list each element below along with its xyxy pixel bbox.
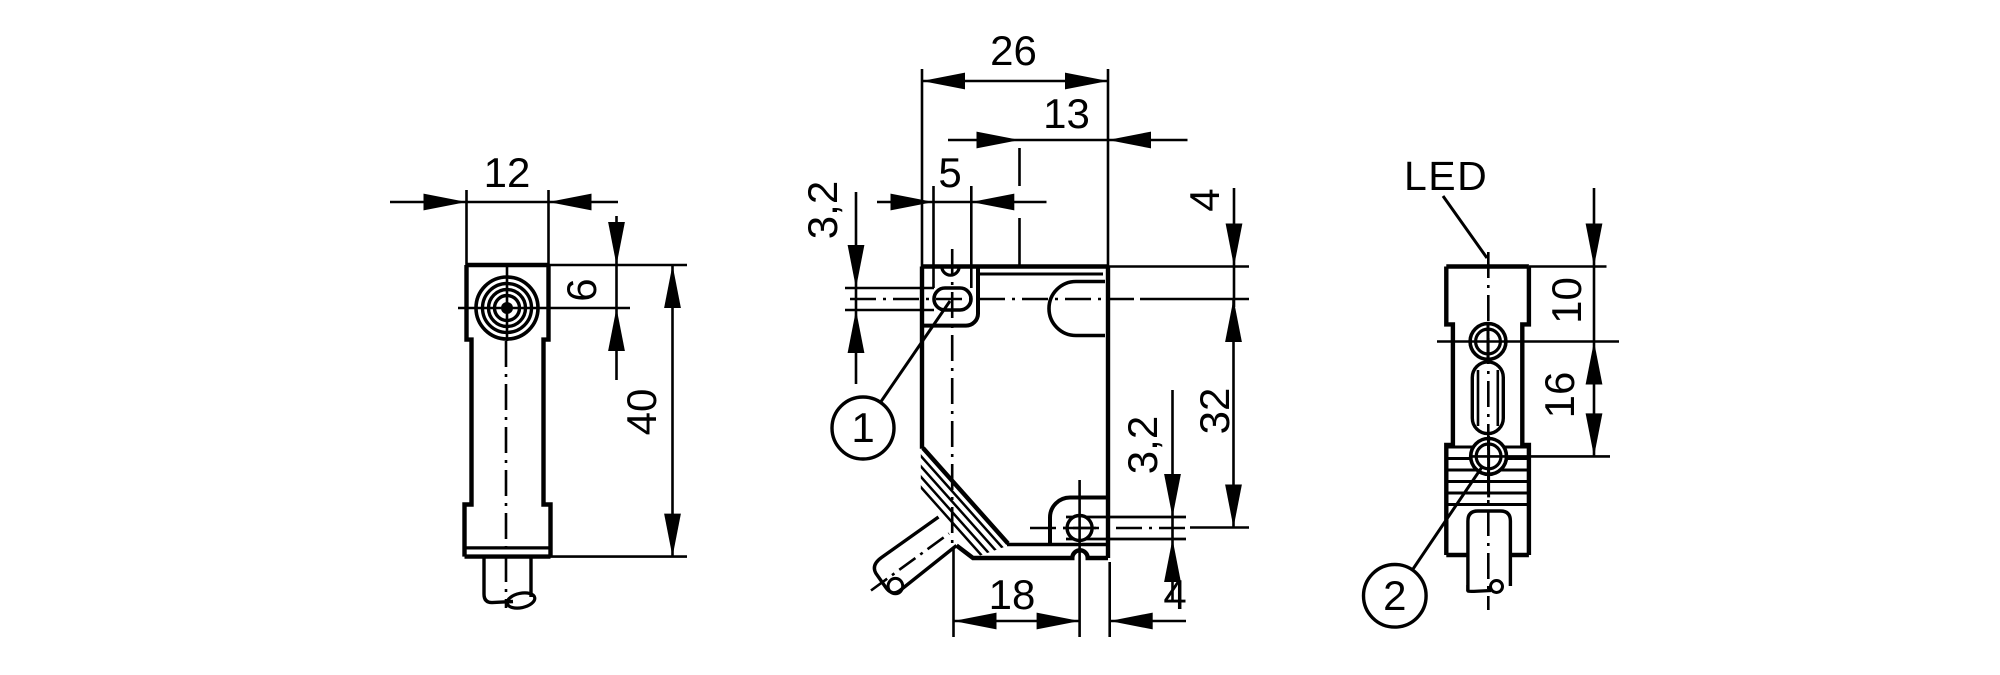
svg-text:6: 6	[558, 278, 605, 301]
svg-text:LED: LED	[1404, 153, 1488, 199]
svg-text:26: 26	[990, 27, 1037, 74]
svg-text:3,2: 3,2	[1119, 416, 1166, 474]
svg-text:4: 4	[1163, 571, 1186, 618]
svg-text:16: 16	[1536, 372, 1583, 419]
svg-text:32: 32	[1191, 388, 1238, 435]
svg-text:10: 10	[1543, 277, 1590, 324]
svg-text:40: 40	[618, 389, 665, 436]
svg-text:5: 5	[938, 149, 961, 196]
svg-text:3,2: 3,2	[799, 181, 846, 239]
svg-text:18: 18	[989, 571, 1036, 618]
svg-text:1: 1	[851, 404, 874, 451]
svg-text:12: 12	[484, 149, 531, 196]
svg-text:4: 4	[1181, 188, 1228, 211]
svg-text:13: 13	[1043, 90, 1090, 137]
svg-text:2: 2	[1383, 572, 1406, 619]
